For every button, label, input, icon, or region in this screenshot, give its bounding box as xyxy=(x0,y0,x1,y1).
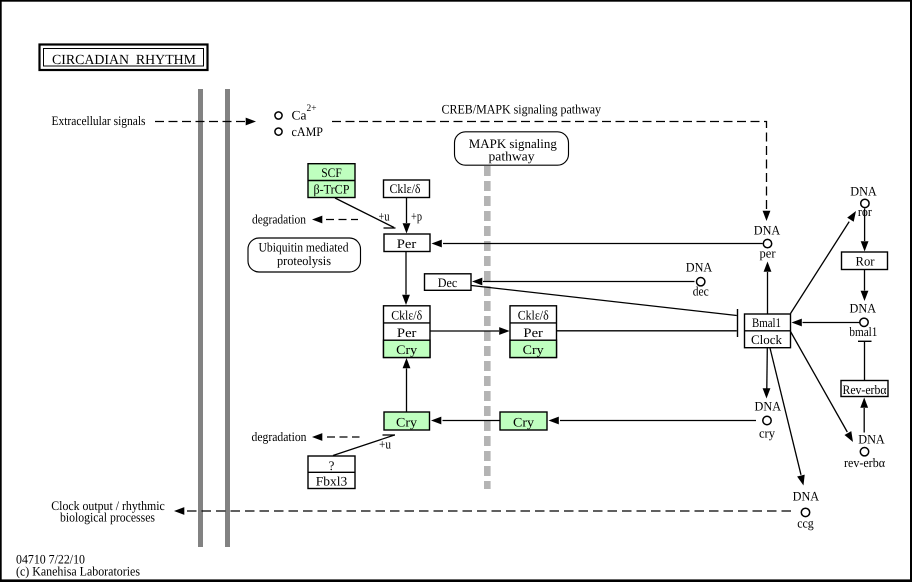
svg-text:Ror: Ror xyxy=(856,254,876,269)
svg-text:DNA: DNA xyxy=(754,223,781,238)
svg-text:cAMP: cAMP xyxy=(292,124,324,139)
svg-text:biological processes: biological processes xyxy=(60,510,155,525)
svg-text:2+: 2+ xyxy=(307,103,317,114)
svg-text:Cry: Cry xyxy=(513,415,535,430)
svg-text:Ca: Ca xyxy=(292,108,307,123)
svg-text:degradation: degradation xyxy=(252,429,307,444)
svg-text:proteolysis: proteolysis xyxy=(277,253,331,268)
svg-text:β-TrCP: β-TrCP xyxy=(314,182,350,197)
svg-text:DNA: DNA xyxy=(850,301,877,316)
svg-text:SCF: SCF xyxy=(321,165,342,180)
svg-text:bmal1: bmal1 xyxy=(849,324,877,339)
svg-text:Fbxl3: Fbxl3 xyxy=(316,474,348,489)
svg-text:CREB/MAPK signaling pathway: CREB/MAPK signaling pathway xyxy=(442,102,602,117)
svg-text:DNA: DNA xyxy=(686,260,713,275)
svg-text:Clock: Clock xyxy=(751,332,782,347)
svg-text:rev-erbα: rev-erbα xyxy=(844,455,885,470)
svg-text:Extracellular signals: Extracellular signals xyxy=(52,113,146,128)
svg-text:Per: Per xyxy=(397,325,417,340)
svg-text:per: per xyxy=(760,246,777,261)
svg-text:DNA: DNA xyxy=(793,489,820,504)
svg-text:Per: Per xyxy=(523,325,543,340)
svg-text:+p: +p xyxy=(411,209,422,224)
svg-text:Cry: Cry xyxy=(396,342,418,357)
svg-text:DNA: DNA xyxy=(858,431,885,446)
svg-text:CIRCADIAN RHYTHM: CIRCADIAN RHYTHM xyxy=(52,53,197,68)
svg-text:Bmal1: Bmal1 xyxy=(752,315,781,330)
svg-text:DNA: DNA xyxy=(850,183,877,198)
svg-text:+u: +u xyxy=(379,437,391,452)
svg-text:Dec: Dec xyxy=(438,275,458,290)
svg-text:DNA: DNA xyxy=(755,399,782,414)
svg-text:?: ? xyxy=(329,458,335,473)
svg-text:ccg: ccg xyxy=(797,516,814,531)
svg-text:cry: cry xyxy=(759,426,775,441)
svg-text:Cry: Cry xyxy=(396,415,418,430)
svg-text:+u: +u xyxy=(379,209,390,224)
svg-text:Cklε/δ: Cklε/δ xyxy=(518,307,549,322)
svg-text:ror: ror xyxy=(858,204,873,219)
svg-text:Rev-erbα: Rev-erbα xyxy=(843,382,887,397)
svg-text:Cklε/δ: Cklε/δ xyxy=(391,307,422,322)
svg-text:degradation: degradation xyxy=(252,212,306,227)
svg-text:pathway: pathway xyxy=(489,148,536,163)
svg-text:Per: Per xyxy=(397,236,417,251)
svg-text:dec: dec xyxy=(693,284,709,299)
svg-text:Cry: Cry xyxy=(523,342,545,357)
svg-text:(c) Kanehisa Laboratories: (c) Kanehisa Laboratories xyxy=(16,564,140,579)
svg-text:Cklε/δ: Cklε/δ xyxy=(390,181,421,196)
